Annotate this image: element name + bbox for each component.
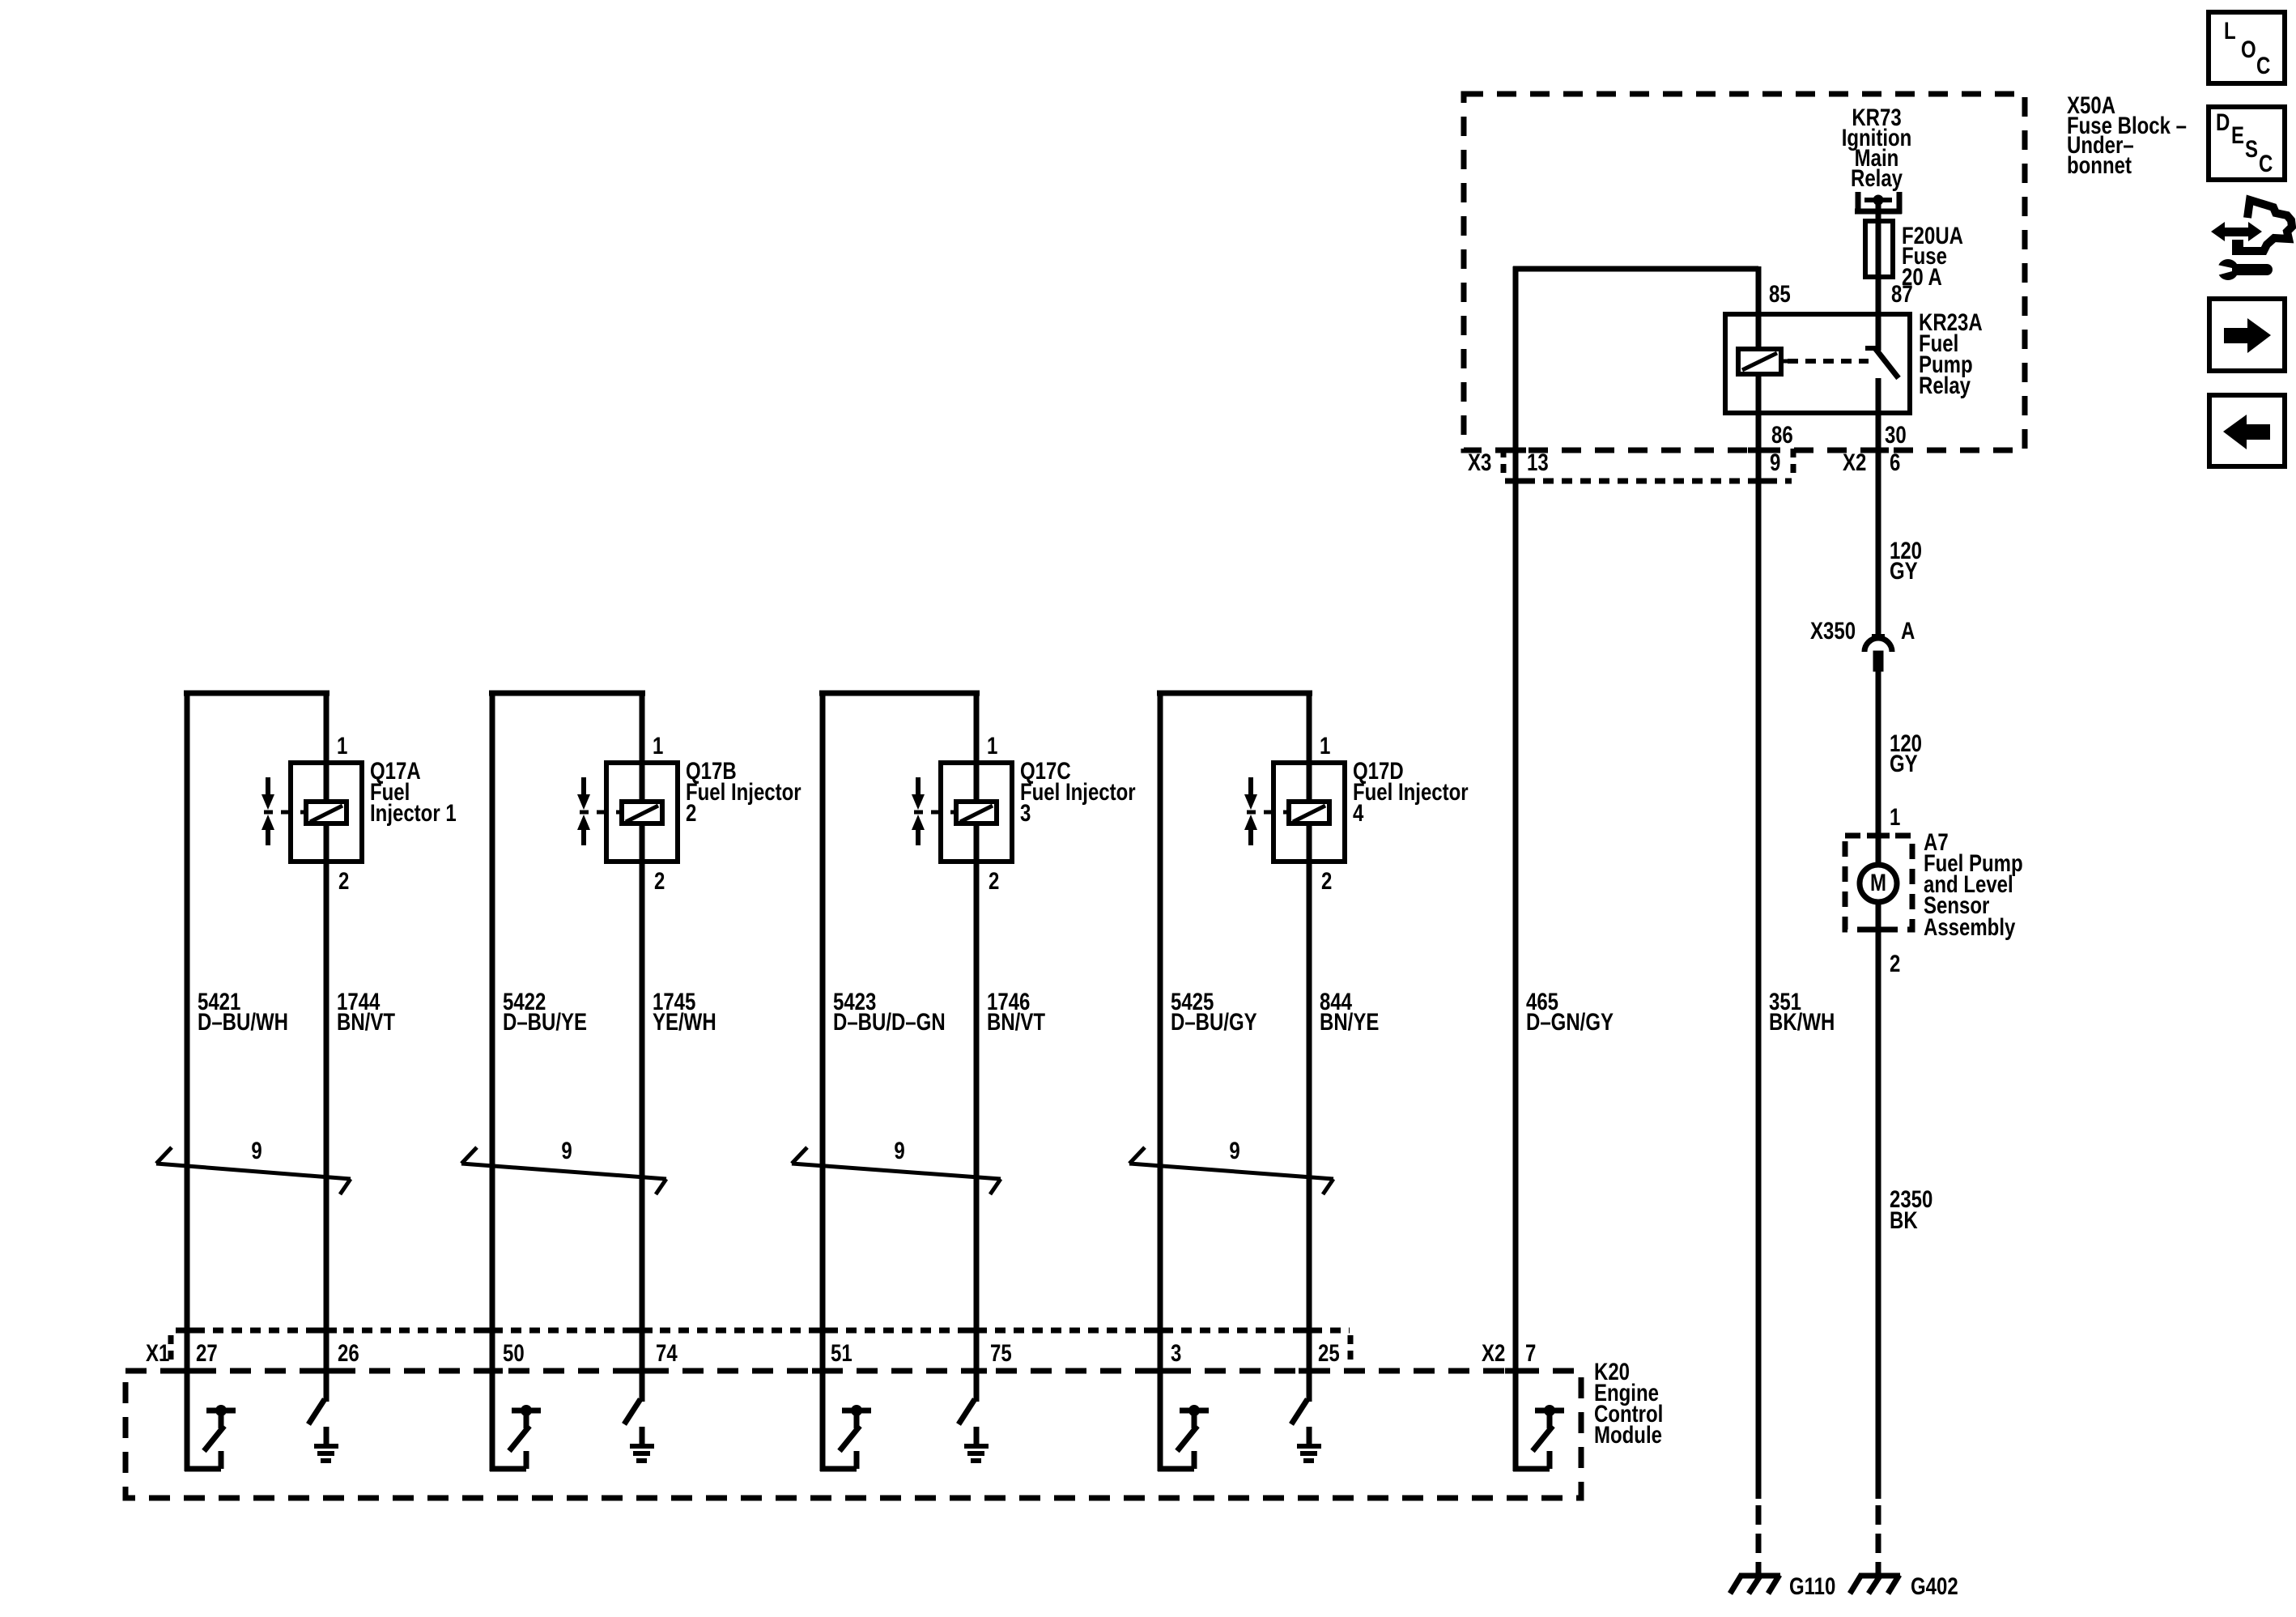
wire 1746 BN/VT right side bbox=[974, 691, 980, 1402]
wire relay pin 85 vertical bbox=[1756, 266, 1762, 349]
svg-text:9: 9 bbox=[894, 1136, 904, 1164]
A7 pin ticks bbox=[1867, 836, 1890, 930]
label Q17D Fuel Injector 4 bbox=[1353, 756, 1469, 826]
svg-text:13: 13 bbox=[1527, 448, 1549, 475]
svg-text:1: 1 bbox=[1890, 802, 1900, 830]
wire 5425 D–BU/GY loop top and left side bbox=[1157, 691, 1312, 1471]
wire label 1746 BN/VT bbox=[987, 987, 1045, 1035]
label KR73 Ignition Main Relay bbox=[1842, 103, 1912, 191]
wire 351 dashed to ground bbox=[1756, 1499, 1762, 1574]
icon back arrow button bbox=[2209, 395, 2285, 466]
svg-text:1: 1 bbox=[1320, 731, 1330, 759]
connector X3 dashed line bbox=[1506, 479, 1792, 484]
connector ticks pins 51/75 bbox=[812, 1330, 987, 1371]
harness crossing arrow 9 (circuit 4) bbox=[1129, 1136, 1333, 1194]
wire label 120 GY (upper) bbox=[1890, 536, 1922, 584]
svg-text:C: C bbox=[2256, 51, 2270, 79]
icon forward arrow button bbox=[2209, 299, 2285, 371]
fuel injector Q17B bbox=[577, 763, 678, 862]
fuel pump assembly A7 dashed box bbox=[1845, 836, 1912, 930]
svg-text:X2: X2 bbox=[1482, 1338, 1505, 1366]
harness crossing arrow 9 (circuit 1) bbox=[156, 1136, 351, 1194]
svg-text:3: 3 bbox=[1020, 798, 1031, 826]
ticks where wires cross fuse block bottom bbox=[1505, 448, 1889, 453]
wire label 2350 BK bbox=[1890, 1185, 1932, 1233]
svg-text:2: 2 bbox=[1890, 949, 1900, 977]
wire label 1745 YE/WH bbox=[653, 987, 716, 1035]
ground G110 bbox=[1730, 1575, 1780, 1594]
icon service vehicle with wrench bbox=[2211, 200, 2292, 280]
wire label 465 D-GN/GY bbox=[1526, 987, 1614, 1035]
svg-text:GY: GY bbox=[1890, 749, 1918, 777]
wire 120 GY X350 to pump bbox=[1876, 671, 1881, 866]
wire label 5421 D–BU/WH bbox=[198, 987, 288, 1035]
svg-text:1: 1 bbox=[653, 731, 663, 759]
wire 844 BN/YE right side bbox=[1307, 691, 1312, 1402]
svg-text:2: 2 bbox=[1321, 866, 1332, 894]
svg-text:Fuel Injector: Fuel Injector bbox=[1353, 777, 1469, 805]
ECM driver for pin X2-7 bbox=[1513, 1405, 1564, 1469]
svg-text:25: 25 bbox=[1318, 1338, 1340, 1366]
svg-text:75: 75 bbox=[990, 1338, 1012, 1366]
relay dashed actuation link bbox=[1788, 359, 1869, 364]
relay KR23A box bbox=[1725, 314, 1910, 413]
wire 2350 dashed to ground bbox=[1876, 1499, 1881, 1574]
svg-text:2: 2 bbox=[338, 866, 349, 894]
svg-text:4: 4 bbox=[1353, 798, 1363, 826]
svg-text:D–BU/D–GN: D–BU/D–GN bbox=[833, 1007, 946, 1035]
fuel injector Q17A bbox=[261, 763, 362, 862]
svg-text:30: 30 bbox=[1885, 420, 1907, 448]
icon LOC button bbox=[2209, 12, 2285, 83]
svg-text:D–BU/YE: D–BU/YE bbox=[503, 1007, 587, 1035]
ECM driver for pin 51 bbox=[820, 1405, 871, 1469]
svg-text:M: M bbox=[1870, 868, 1886, 896]
label K20 Engine Control Module bbox=[1594, 1357, 1663, 1448]
svg-text:9: 9 bbox=[1229, 1136, 1239, 1164]
wire 1744 BN/VT right side bbox=[324, 691, 330, 1402]
wire 5423 D–BU/D–GN loop top and left side bbox=[819, 691, 980, 1471]
ECM driver for pin 27 bbox=[185, 1405, 236, 1469]
connector X1 dotted line bbox=[176, 1328, 1350, 1334]
connector ticks pins 3/25 bbox=[1150, 1330, 1320, 1371]
wire label 351 BK/WH bbox=[1769, 987, 1835, 1035]
svg-text:74: 74 bbox=[656, 1338, 678, 1366]
relay KR73 contact symbol bbox=[1855, 192, 1902, 214]
svg-text:6: 6 bbox=[1890, 448, 1900, 475]
svg-text:Injector 1: Injector 1 bbox=[370, 798, 457, 826]
fuel injector Q17C bbox=[912, 763, 1012, 862]
svg-text:86: 86 bbox=[1771, 420, 1793, 448]
connector X3 tick bbox=[1501, 449, 1507, 476]
ECM driver for pin 3 bbox=[1158, 1405, 1209, 1469]
svg-text:GY: GY bbox=[1890, 556, 1918, 584]
fuse F20UA 20A bbox=[1865, 221, 1893, 277]
connector X1 tick bbox=[168, 1335, 174, 1365]
svg-text:87: 87 bbox=[1891, 279, 1913, 307]
svg-text:D: D bbox=[2216, 108, 2230, 135]
svg-text:S: S bbox=[2245, 134, 2258, 162]
fuel injector Q17D bbox=[1244, 763, 1345, 862]
svg-text:X2: X2 bbox=[1843, 448, 1866, 475]
connector tick after pin 9 bbox=[1791, 449, 1796, 476]
svg-text:C: C bbox=[2259, 149, 2273, 177]
wire 5422 D–BU/YE loop top and left side bbox=[489, 691, 645, 1471]
svg-text:G402: G402 bbox=[1911, 1572, 1958, 1599]
svg-text:X1: X1 bbox=[146, 1338, 169, 1366]
svg-text:A: A bbox=[1901, 616, 1915, 644]
fuel pump motor M bbox=[1860, 865, 1897, 902]
svg-text:YE/WH: YE/WH bbox=[653, 1007, 716, 1035]
svg-text:D–GN/GY: D–GN/GY bbox=[1526, 1007, 1614, 1035]
harness crossing arrow 9 (circuit 3) bbox=[792, 1136, 1001, 1194]
svg-text:Relay: Relay bbox=[1919, 371, 1971, 398]
connector ticks pins 50/74 bbox=[482, 1330, 653, 1371]
wire 5421 D–BU/WH loop top and left side bbox=[184, 691, 330, 1471]
harness crossing arrow 9 (circuit 2) bbox=[461, 1136, 666, 1194]
connector ticks pins 27/26 bbox=[176, 1330, 337, 1371]
ECM driver for pin 50 bbox=[490, 1405, 541, 1469]
wire KR73 to fuse bbox=[1876, 200, 1881, 224]
ECM ground switch for pin 25 bbox=[1291, 1399, 1321, 1461]
svg-text:3: 3 bbox=[1171, 1338, 1181, 1366]
svg-text:26: 26 bbox=[338, 1338, 359, 1366]
label Q17C Fuel Injector 3 bbox=[1020, 756, 1136, 826]
svg-text:E: E bbox=[2231, 121, 2244, 148]
svg-text:2: 2 bbox=[654, 866, 665, 894]
label Q17A Fuel Injector 1 bbox=[370, 756, 457, 826]
ECM module K20 dashed box bbox=[125, 1371, 1581, 1498]
svg-text:X350: X350 bbox=[1810, 616, 1856, 644]
wire 1745 YE/WH right side bbox=[640, 691, 645, 1402]
ticks where wires cross X3 line bbox=[1505, 479, 1769, 484]
label KR23A Fuel Pump Relay bbox=[1919, 308, 1983, 398]
svg-text:L: L bbox=[2224, 16, 2236, 44]
svg-text:1: 1 bbox=[337, 731, 347, 759]
svg-text:27: 27 bbox=[196, 1338, 218, 1366]
ECM ground switch for pin 74 bbox=[624, 1399, 654, 1461]
svg-text:D–BU/GY: D–BU/GY bbox=[1171, 1007, 1257, 1035]
wire 465 D-GN/GY from ECM to relay pin 85 bbox=[1513, 266, 1758, 1471]
icon DESC button bbox=[2209, 107, 2285, 180]
label F20UA Fuse 20 A bbox=[1902, 221, 1963, 290]
label Q17B Fuel Injector 2 bbox=[686, 756, 801, 826]
relay lower contact pin 30 bbox=[1876, 378, 1881, 413]
ECM ground switch for pin 26 bbox=[308, 1399, 338, 1461]
svg-text:D–BU/WH: D–BU/WH bbox=[198, 1007, 288, 1035]
connector X350 bbox=[1864, 636, 1892, 671]
svg-text:BN/VT: BN/VT bbox=[337, 1007, 395, 1035]
svg-text:Relay: Relay bbox=[1851, 164, 1903, 191]
svg-text:1: 1 bbox=[987, 731, 997, 759]
svg-text:bonnet: bonnet bbox=[2067, 151, 2132, 178]
svg-text:51: 51 bbox=[831, 1338, 852, 1366]
label X50A Fuse Block Underbonnet bbox=[2067, 91, 2187, 178]
svg-text:O: O bbox=[2241, 35, 2256, 62]
wire label 5422 D–BU/YE bbox=[503, 987, 587, 1035]
svg-text:G110: G110 bbox=[1789, 1572, 1835, 1599]
wire 120 GY relay to X350 bbox=[1876, 413, 1881, 636]
svg-text:Module: Module bbox=[1594, 1420, 1662, 1448]
svg-text:9: 9 bbox=[251, 1136, 261, 1164]
relay KR23A coil bbox=[1738, 349, 1788, 374]
wire relay pin 86 down bbox=[1756, 374, 1762, 1499]
svg-text:2: 2 bbox=[686, 798, 696, 826]
svg-text:Fuel Injector: Fuel Injector bbox=[1020, 777, 1136, 805]
svg-text:9: 9 bbox=[1770, 448, 1780, 475]
wire label 844 BN/YE bbox=[1320, 987, 1379, 1035]
svg-text:50: 50 bbox=[503, 1338, 525, 1366]
ground G402 bbox=[1850, 1575, 1900, 1594]
ECM ground switch for pin 75 bbox=[959, 1399, 989, 1461]
svg-text:7: 7 bbox=[1525, 1338, 1536, 1366]
wire label 5423 D–BU/D–GN bbox=[833, 987, 946, 1035]
svg-text:85: 85 bbox=[1769, 279, 1791, 307]
label A7 Fuel Pump and Level Sensor Assembly bbox=[1924, 828, 2023, 940]
svg-text:2: 2 bbox=[989, 866, 999, 894]
wire label 1744 BN/VT bbox=[337, 987, 395, 1035]
svg-text:BK/WH: BK/WH bbox=[1769, 1007, 1835, 1035]
fuse block X50A dashed box bbox=[1464, 94, 2025, 450]
wire label 120 GY (lower) bbox=[1890, 729, 1922, 777]
svg-text:BK: BK bbox=[1890, 1206, 1918, 1233]
connector tick after pin 25 bbox=[1348, 1335, 1354, 1366]
svg-text:Fuel Injector: Fuel Injector bbox=[686, 777, 801, 805]
svg-text:Assembly: Assembly bbox=[1924, 913, 2015, 940]
svg-text:BN/VT: BN/VT bbox=[987, 1007, 1045, 1035]
wire label 5425 D–BU/GY bbox=[1171, 987, 1257, 1035]
wire fuse to relay pin 87 bbox=[1876, 277, 1881, 351]
tick where wire 465 crosses ECM top bbox=[1505, 1368, 1526, 1374]
relay switch blade bbox=[1865, 348, 1898, 378]
svg-text:BN/YE: BN/YE bbox=[1320, 1007, 1379, 1035]
svg-text:9: 9 bbox=[561, 1136, 572, 1164]
wire pump to ground bbox=[1876, 902, 1881, 1499]
svg-text:X3: X3 bbox=[1468, 448, 1491, 475]
